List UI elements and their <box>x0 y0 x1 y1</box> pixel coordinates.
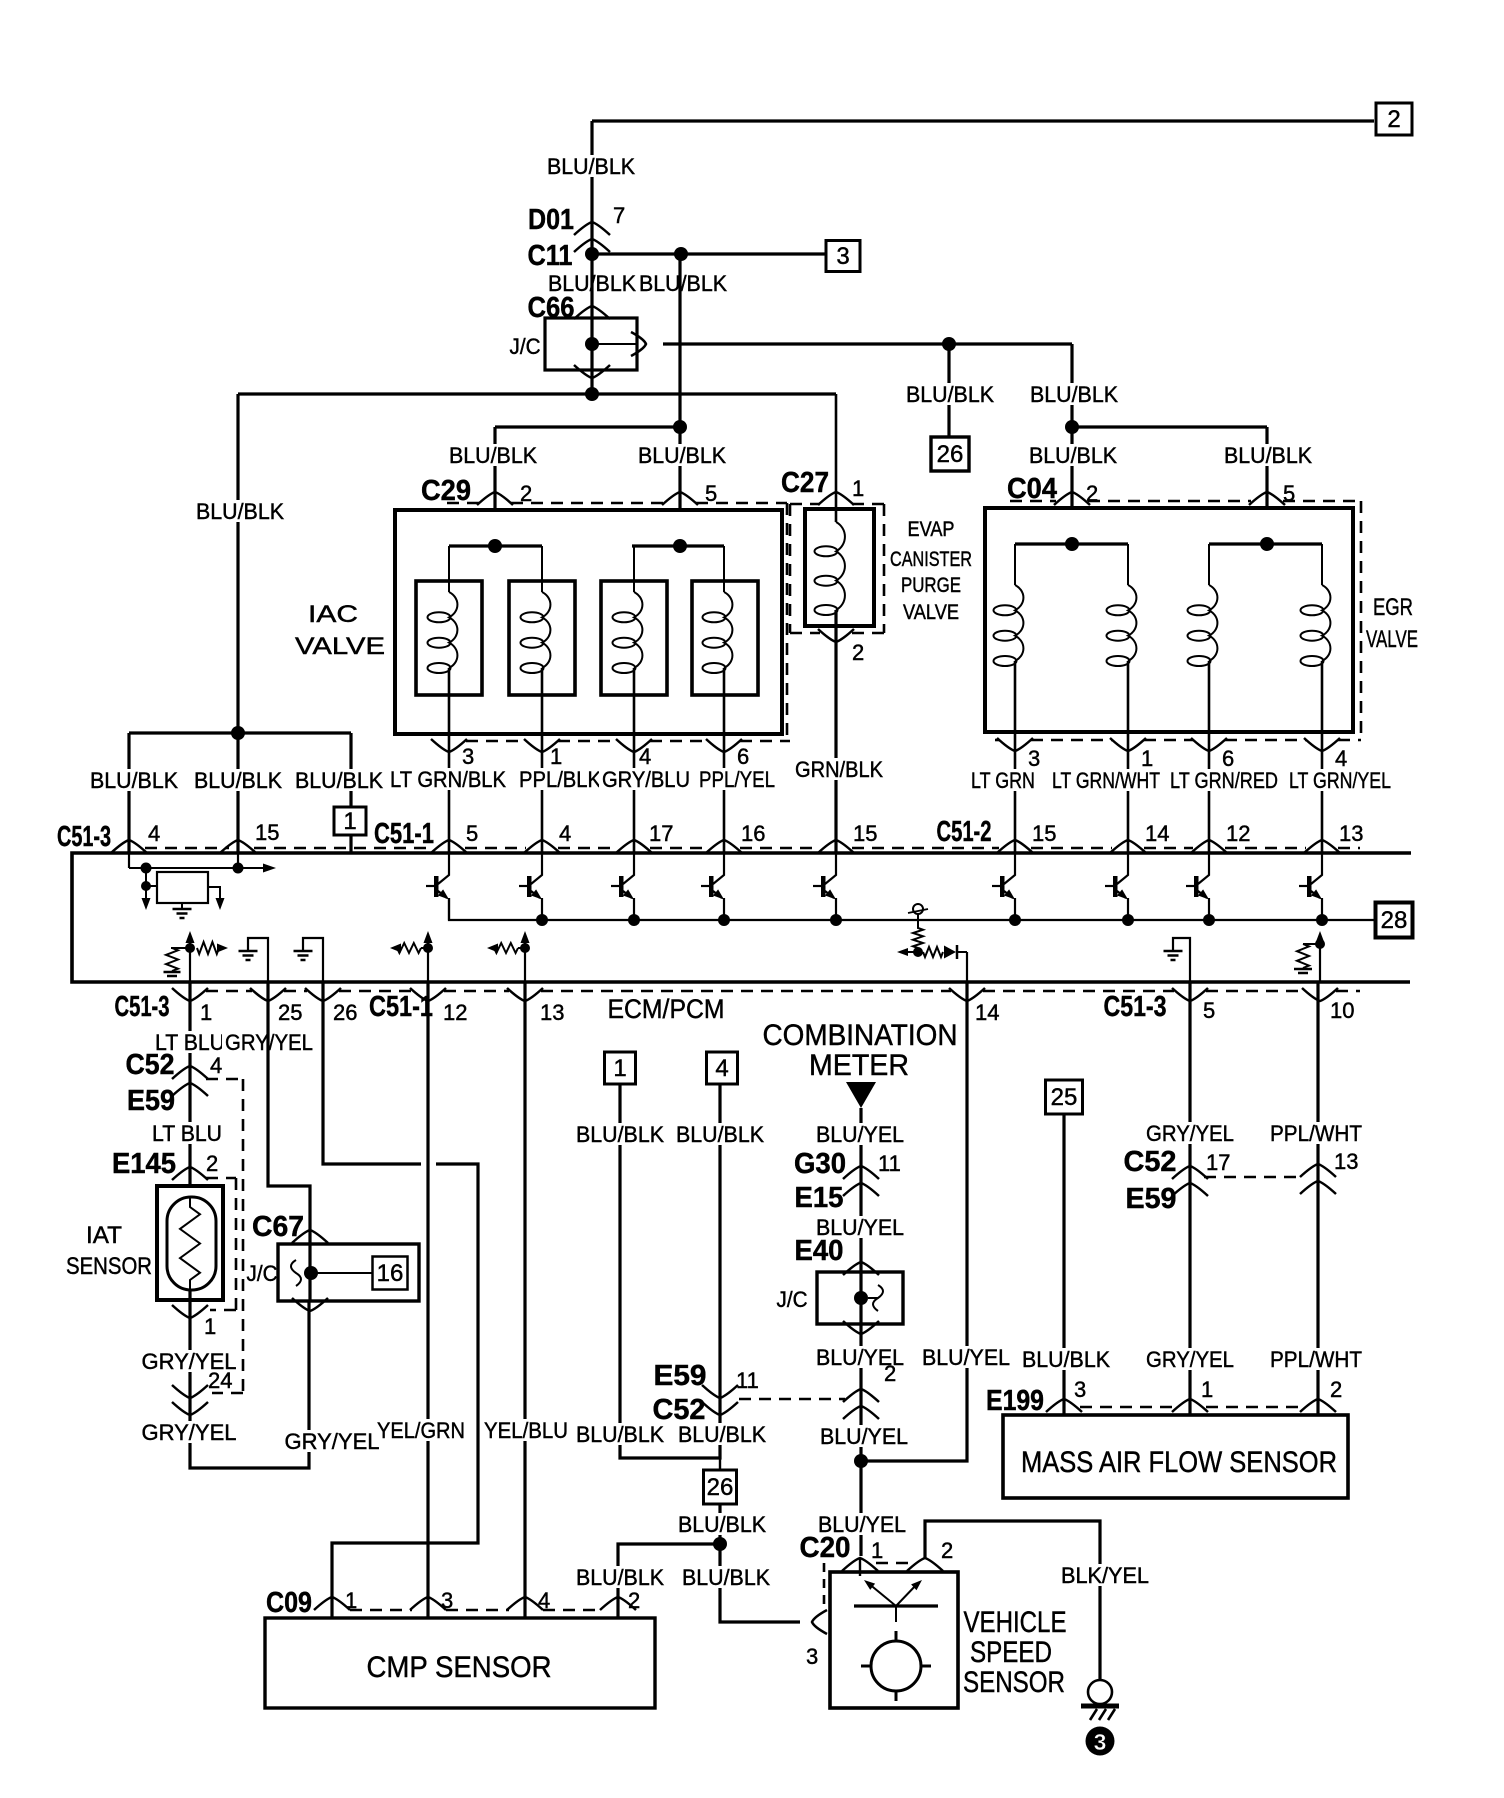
ref box 25 <box>1046 1080 1083 1114</box>
stub with up arrow at pin1 <box>186 931 195 982</box>
dashed E145 bracket vertical <box>235 1178 238 1310</box>
ground hook at x268 <box>248 938 268 982</box>
label LT GRN/BLK <box>387 767 509 792</box>
stub with up arrow at x525 <box>521 931 530 982</box>
svg-text:SENSOR: SENSOR <box>963 1666 1065 1699</box>
wire left bundle horizontal <box>129 731 351 734</box>
label LT GRN/RED <box>1167 768 1281 793</box>
svg-text:24: 24 <box>208 1368 232 1393</box>
label BLU/YEL 5 <box>815 1512 909 1537</box>
chevron C04 bottom pin 3 <box>997 738 1033 751</box>
chevrons E59/C52 pin 2 chain <box>843 1389 879 1419</box>
wire pin12 YEL/GRN down <box>426 982 429 1618</box>
chevron C20 pin 3 <box>812 1610 827 1634</box>
dashed box EVAP right <box>883 504 886 633</box>
svg-text:3: 3 <box>836 243 849 270</box>
VSS arrow to pin1 <box>864 1580 896 1606</box>
svg-text:4: 4 <box>639 744 651 769</box>
dashed E145 link right <box>206 1177 236 1180</box>
svg-text:PPL/WHT: PPL/WHT <box>1270 1121 1362 1146</box>
dashed connector line top edge seg 3 <box>465 847 526 850</box>
svg-text:E145: E145 <box>112 1148 176 1180</box>
svg-text:VALVE: VALVE <box>295 633 385 660</box>
chevron C66 top <box>574 306 610 319</box>
transistor Q6 driver <box>992 854 1015 920</box>
wire bundle drop x238 <box>236 733 239 853</box>
chevron C51-3 bottom pin 10 <box>1302 988 1338 1001</box>
wire ref25 to MAF pin3 <box>1062 1114 1065 1415</box>
wire stub to ref26 bottom <box>719 1458 721 1471</box>
resistor to ground left of pin1 <box>166 948 190 971</box>
resistor inside IAT sensor <box>180 1197 200 1290</box>
resistor with left arrow at x525 <box>487 943 525 953</box>
svg-text:C51-2: C51-2 <box>937 816 992 848</box>
svg-text:GRN/BLK: GRN/BLK <box>795 757 883 782</box>
svg-text:LT GRN/BLK: LT GRN/BLK <box>390 767 506 792</box>
ref box 26 bottom <box>704 1470 737 1504</box>
wire EGR coil 3 exit to ECM <box>1208 661 1211 853</box>
chevron C29 bottom pin 3 <box>431 739 467 752</box>
svg-text:5: 5 <box>1203 998 1215 1023</box>
VSS bar stem <box>895 1606 897 1622</box>
junction emitter bus x836 <box>830 914 842 926</box>
ref box 1 middle <box>605 1052 636 1084</box>
dashed EGR top <box>1010 500 1056 503</box>
svg-text:GRY/YEL: GRY/YEL <box>1146 1121 1234 1146</box>
svg-text:25: 25 <box>1051 1084 1078 1111</box>
label PPL/WHT right 1 <box>1267 1121 1365 1146</box>
wire pin14 BLU/YEL down <box>861 982 967 1461</box>
dashed EGR bottom a <box>995 739 999 742</box>
chevron C27 pin 1 <box>818 492 854 505</box>
dashed connector C29 bottom segs b <box>558 740 618 743</box>
wire IAC coil 3 exit to ECM <box>633 668 636 853</box>
dashed connector C29 top b <box>511 502 664 505</box>
dashed box EVAP top b <box>852 503 884 506</box>
label YEL/BLU <box>481 1418 571 1443</box>
label BLU/BLK above VSS <box>679 1565 773 1590</box>
chevron C29 pin 5 <box>662 492 698 505</box>
svg-text:BLU/BLK: BLU/BLK <box>906 382 994 407</box>
ground bars pin5 right <box>1164 951 1183 960</box>
wire bundle drop x129 <box>127 733 130 853</box>
dashed connector line bottom edge seg 8 <box>1336 990 1360 993</box>
label BLU/YEL 4 <box>817 1424 911 1449</box>
svg-text:26: 26 <box>937 441 964 468</box>
dashed connector C29 top c <box>696 502 787 505</box>
wire C20 pin2 up <box>925 1521 1100 1680</box>
wire pin26 GRY/YEL down <box>323 982 421 1164</box>
ref box 3 <box>826 241 860 272</box>
svg-text:3: 3 <box>1074 1377 1086 1402</box>
label BLU/BLK right of U <box>675 1422 769 1447</box>
VSS rotor circle <box>861 1631 931 1701</box>
wire EGR pair1 top <box>1015 542 1128 545</box>
squiggle inside C67 <box>291 1260 301 1286</box>
chevron C09 pin 3 <box>410 1597 446 1610</box>
svg-text:C27: C27 <box>781 467 829 499</box>
junction block E40 J/C box <box>817 1272 903 1324</box>
stub with up arrow at x428 <box>424 931 433 982</box>
svg-text:GRY/YEL: GRY/YEL <box>142 1420 237 1445</box>
dashed box EVAP bottom b <box>852 632 884 635</box>
ground small below pin1 resistor <box>164 972 181 980</box>
svg-text:BLU/BLK: BLU/BLK <box>638 443 726 468</box>
wire EGR pair2 top <box>1209 542 1322 545</box>
IAC coil cell box 1 <box>416 581 482 695</box>
chevron C29 bottom pin 1 <box>524 739 560 752</box>
arrow down left of box <box>142 898 151 910</box>
svg-text:PPL/BLK: PPL/BLK <box>519 767 601 792</box>
dashed connector line top edge seg 9 <box>1144 847 1193 850</box>
svg-text:SENSOR: SENSOR <box>66 1253 152 1280</box>
chevron C67 top <box>292 1230 328 1243</box>
svg-text:BLU/BLK: BLU/BLK <box>576 1422 664 1447</box>
junction BLU/YEL x861 <box>854 1454 868 1468</box>
svg-text:4: 4 <box>715 1055 728 1082</box>
svg-text:17: 17 <box>1206 1150 1230 1175</box>
dashed EGR right <box>1360 501 1363 740</box>
dashed connector line top edge seg 7 <box>852 847 999 850</box>
svg-text:BLU/YEL: BLU/YEL <box>922 1345 1010 1370</box>
chevron C66 bottom <box>574 365 610 378</box>
junction dot on C66 output at x949 <box>942 337 956 351</box>
svg-text:15: 15 <box>255 820 279 845</box>
svg-text:3: 3 <box>1094 1729 1107 1755</box>
chevron C51-2 pin 15 <box>997 840 1033 853</box>
chevron C51-2 pin 13 <box>1304 840 1340 853</box>
wire BLU/BLK horizontal bus y394 <box>238 392 836 395</box>
arrow line inside ECM left <box>129 864 276 873</box>
chevron C51-2 pin 14 <box>1110 840 1146 853</box>
dashed connector line bottom edge seg 2 <box>284 990 307 993</box>
dashed C09 c <box>543 1609 602 1612</box>
junction emitter bus x1128 <box>1122 914 1134 926</box>
svg-text:16: 16 <box>741 821 765 846</box>
svg-text:7: 7 <box>613 203 625 228</box>
svg-text:1: 1 <box>204 1314 216 1339</box>
dashed EGR bottom d <box>1225 739 1306 742</box>
svg-text:10: 10 <box>1330 998 1354 1023</box>
svg-text:CMP SENSOR: CMP SENSOR <box>367 1651 552 1684</box>
dashed C09 b <box>446 1609 509 1612</box>
chevron C67 bottom <box>292 1298 328 1311</box>
label BLU/YEL 3 <box>813 1345 907 1370</box>
junction dot IAC pair 2 <box>673 539 687 553</box>
resistor horizontal to diode <box>923 947 943 957</box>
transistor Q1 driver <box>426 854 449 920</box>
chassis ground bar <box>1081 1704 1119 1709</box>
svg-text:2: 2 <box>884 1361 896 1386</box>
svg-text:E199: E199 <box>986 1385 1044 1417</box>
svg-text:GRY/YEL: GRY/YEL <box>1146 1347 1234 1372</box>
ground under interface box <box>173 909 192 918</box>
svg-text:E59: E59 <box>654 1360 707 1392</box>
wire pin25 GRY/YEL down <box>268 982 310 1301</box>
ground ref 3 filled circle <box>1086 1727 1115 1756</box>
wire IAC coil 1 entry <box>448 546 450 592</box>
chevron C51-3 bottom pin 5 <box>1172 988 1208 1001</box>
wire EGR coil 1 exit to ECM <box>1014 661 1017 853</box>
coil IAC 3 <box>613 592 643 673</box>
chevron E145 pin 2 <box>172 1167 208 1180</box>
VSS pickup bar <box>854 1604 938 1607</box>
wire interface box ground stem <box>181 903 183 909</box>
EVAP coil box <box>805 509 874 626</box>
label BLU/BLK under ref4 <box>673 1122 767 1147</box>
IAC VALVE box <box>395 510 782 734</box>
dashed connector C29 bottom a <box>432 740 435 743</box>
coil IAC 2 <box>521 592 551 673</box>
IAC coil cell box 2 <box>509 581 575 695</box>
label GRY/BLU <box>599 767 693 792</box>
label BLU/BLK above x1072 <box>1027 382 1121 407</box>
svg-text:BLU/BLK: BLU/BLK <box>678 1422 766 1447</box>
junction pin15 on arrow line <box>233 863 244 874</box>
label BLU/YEL 2 <box>813 1215 907 1240</box>
svg-text:3: 3 <box>462 744 474 769</box>
svg-text:11: 11 <box>878 1151 901 1176</box>
wire BLU/YEL meter down <box>859 1108 862 1556</box>
svg-text:11: 11 <box>736 1368 759 1393</box>
svg-text:C20: C20 <box>800 1532 851 1564</box>
wire ref26 to junction <box>718 1504 721 1544</box>
ref box 4 middle <box>707 1052 738 1084</box>
wire IAT pin1 down <box>190 1290 309 1468</box>
label GRY/YEL right 2 <box>1143 1347 1237 1372</box>
chassis ground hatches <box>1090 1709 1115 1720</box>
IAC coil cell box 3 <box>601 581 667 695</box>
dashed box EVAP bottom <box>790 632 820 635</box>
label BLU/BLK bundle 3 <box>292 768 386 793</box>
dashed connector line top edge seg 10 <box>1225 847 1306 850</box>
wire branch to C29 pin2 <box>495 425 680 428</box>
svg-text:12: 12 <box>443 1000 467 1025</box>
dashed EGR bottom b <box>1031 739 1112 742</box>
transistor Q2 driver <box>519 854 542 920</box>
label PPL/YEL <box>696 767 778 792</box>
dashed C52 bracket bottom <box>212 1392 243 1395</box>
dashed EGR bottom e <box>1338 739 1361 742</box>
chevron E40 bottom <box>843 1321 879 1334</box>
svg-text:13: 13 <box>1339 821 1363 846</box>
wire riser x680 C11 to C29 pin5 <box>678 254 681 546</box>
chevron E40 top <box>843 1262 879 1275</box>
dashed box EVAP top <box>790 503 820 506</box>
coil EGR 1 <box>994 585 1024 666</box>
dashed connector line bottom edge seg 6 <box>983 990 1174 993</box>
svg-text:C29: C29 <box>421 475 471 507</box>
wire IAC coil 1 exit to ECM <box>448 668 451 853</box>
svg-text:VEHICLE: VEHICLE <box>964 1606 1067 1639</box>
svg-text:BLU/YEL: BLU/YEL <box>820 1424 908 1449</box>
label BLU/BLK below C11 right <box>636 271 730 296</box>
svg-text:VALVE: VALVE <box>1366 626 1418 653</box>
transistor Q8 driver <box>1186 854 1209 920</box>
svg-text:4: 4 <box>148 821 160 846</box>
wire IAC pair1 top <box>449 544 542 547</box>
svg-text:J/C: J/C <box>777 1287 808 1312</box>
svg-text:C51-3: C51-3 <box>1104 991 1167 1023</box>
chevron C09 pin 4 <box>507 1597 543 1610</box>
label BLU/BLK under ref26 <box>675 1512 769 1537</box>
transistor Q7 driver <box>1105 854 1128 920</box>
svg-text:C09: C09 <box>266 1587 312 1619</box>
junction emitter bus x1322 <box>1316 914 1328 926</box>
label BLU/YEL 1 <box>813 1122 907 1147</box>
wire C67 dot to ref16 <box>311 1272 373 1274</box>
label GRY/YEL above CMP <box>282 1429 383 1454</box>
label BLU/BLK top <box>544 154 638 179</box>
svg-text:1: 1 <box>613 1055 626 1082</box>
dashed connector line top edge seg 8 <box>1031 847 1112 850</box>
label BLU/BLK left of U <box>573 1422 667 1447</box>
chevrons C52/E59 pin 17 <box>1172 1166 1208 1196</box>
label PPL/WHT right 2 <box>1267 1347 1365 1372</box>
MASS AIR FLOW SENSOR box <box>1003 1415 1348 1498</box>
dashed C20 top <box>876 1562 909 1565</box>
wire stub ref1 to ECM <box>349 835 352 853</box>
svg-text:1: 1 <box>852 476 864 501</box>
ref box 26 top <box>931 437 969 471</box>
label LT GRN/YEL <box>1286 768 1394 793</box>
wire EGR coil 1 entry <box>1014 544 1016 585</box>
svg-text:BLU/BLK: BLU/BLK <box>676 1122 764 1147</box>
coil EVAP canister purge valve <box>815 522 845 615</box>
wire down to ref 26 <box>947 344 950 437</box>
svg-text:1: 1 <box>200 1000 212 1025</box>
svg-text:E59: E59 <box>1126 1183 1177 1215</box>
svg-text:C11: C11 <box>528 240 573 272</box>
junction block C67 J/C box <box>278 1244 419 1301</box>
wire from ref1 down <box>620 1084 720 1458</box>
wire interface box left lead <box>146 885 157 887</box>
svg-text:BLU/BLK: BLU/BLK <box>547 154 635 179</box>
wire to VSS pin 3 <box>720 1544 800 1622</box>
svg-text:EVAP: EVAP <box>908 518 955 541</box>
dashed E199 b <box>1206 1406 1302 1409</box>
wire through C66 J/C <box>590 254 593 394</box>
coil IAC 4 <box>703 592 733 673</box>
svg-text:YEL/GRN: YEL/GRN <box>377 1418 465 1443</box>
dashed EGR bottom c <box>1144 739 1193 742</box>
label BLU/BLK above C29 pin2 <box>446 443 540 468</box>
junction x146 y886 <box>141 881 151 891</box>
svg-text:12: 12 <box>1226 821 1250 846</box>
chevron C51-1 pin 15 <box>818 840 854 853</box>
wire C11 to ref 3 <box>592 252 826 255</box>
label GRY/YEL lower <box>139 1420 240 1445</box>
coil IAC 1 <box>428 592 458 673</box>
svg-text:BLU/BLK: BLU/BLK <box>1022 1347 1110 1372</box>
dashed C09 a <box>350 1609 412 1612</box>
arrow left at tap junction <box>897 948 918 956</box>
label BLK/YEL <box>1058 1563 1152 1588</box>
svg-text:BLU/BLK: BLU/BLK <box>682 1565 770 1590</box>
wire pin5 GRY/YEL down <box>1188 982 1191 1415</box>
chevron C29 bottom pin 4 <box>616 739 652 752</box>
chevron E199 pin 3 <box>1046 1399 1082 1412</box>
svg-text:BLU/BLK: BLU/BLK <box>194 768 282 793</box>
VSS arrow to pin2 <box>896 1580 922 1606</box>
svg-text:BLU/BLK: BLU/BLK <box>576 1122 664 1147</box>
chevron E199 pin 2 <box>1300 1399 1336 1412</box>
chevron C04 pin 2 <box>1054 492 1090 505</box>
label PPL/BLK <box>516 767 604 792</box>
wire IAC coil 2 entry <box>541 546 543 592</box>
svg-text:J/C: J/C <box>247 1261 278 1286</box>
dashed C52-17 link <box>1204 1176 1304 1179</box>
svg-text:PPL/WHT: PPL/WHT <box>1270 1347 1362 1372</box>
wire pin1 LT BLU down <box>188 982 191 1205</box>
transistor Q3 driver <box>611 854 634 920</box>
chevron C66 output <box>631 332 646 356</box>
junction BLU/BLK x720 <box>713 1537 727 1551</box>
svg-text:C51-3: C51-3 <box>115 991 170 1023</box>
VEHICLE SPEED SENSOR box <box>830 1572 958 1708</box>
junction stub x428 <box>423 943 433 953</box>
svg-text:LT GRN/RED: LT GRN/RED <box>1170 768 1278 793</box>
svg-text:2: 2 <box>628 1588 640 1613</box>
junction on C11 wire at x681 <box>674 247 688 261</box>
svg-text:4: 4 <box>559 821 571 846</box>
transistor Q9 driver <box>1299 854 1322 920</box>
dashed connector line bottom edge seg 4 <box>444 990 509 993</box>
wire IAC coil 4 entry <box>723 546 725 592</box>
chevron C51-3 pin 15 <box>220 840 256 853</box>
junction dot inside E40 <box>854 1291 868 1305</box>
junction stub x525 <box>520 943 530 953</box>
svg-text:ECM/PCM: ECM/PCM <box>608 994 725 1024</box>
label GRN/BLK <box>792 757 886 782</box>
chevrons G30/E15 pin 11 <box>843 1166 879 1196</box>
svg-text:25: 25 <box>278 1000 302 1025</box>
junction dot inside C66 <box>585 337 599 351</box>
svg-text:VALVE: VALVE <box>903 601 959 624</box>
wire pin13 YEL/BLU down <box>523 982 526 1618</box>
junction dot at bottom of C66 <box>585 387 599 401</box>
chevron C51-3 bottom pin 1 <box>172 988 208 1001</box>
wire branch to C04 pin5 <box>1072 425 1267 428</box>
dashed connector line top edge seg 5 <box>650 847 708 850</box>
wire emitter bus to ref 28 <box>449 898 1376 920</box>
svg-text:2: 2 <box>1330 1377 1342 1402</box>
label BLU/YEL pin14 <box>919 1345 1013 1370</box>
ref box 28 <box>1376 903 1413 938</box>
wire x146 drop <box>145 868 147 898</box>
wire pin26 GRY/YEL continue <box>332 1164 478 1618</box>
ground bars pin10 <box>1294 969 1312 977</box>
svg-text:BLU/BLK: BLU/BLK <box>1224 443 1312 468</box>
label LT BLU under pin1 <box>152 1030 228 1055</box>
dashed EGR top b <box>1088 500 1251 503</box>
dashed C52-4 link right <box>206 1078 243 1081</box>
dashed C20 left <box>823 1563 826 1612</box>
svg-text:1: 1 <box>550 744 562 769</box>
coil EGR 3 <box>1188 585 1218 666</box>
svg-text:PPL/YEL: PPL/YEL <box>699 767 775 792</box>
label LT GRN <box>968 768 1038 793</box>
label BLU/BLK above MAF pin3 <box>1019 1347 1113 1372</box>
svg-text:BLU/BLK: BLU/BLK <box>295 768 383 793</box>
junction dot IAC pair 1 <box>488 539 502 553</box>
svg-text:26: 26 <box>333 1000 357 1025</box>
chevron C51-1 pin 4 <box>524 840 560 853</box>
dashed connector line bottom edge seg 1 <box>206 990 252 993</box>
svg-text:METER: METER <box>809 1049 909 1082</box>
svg-text:1: 1 <box>343 808 356 835</box>
chevron C20 pin 2 <box>907 1558 943 1571</box>
